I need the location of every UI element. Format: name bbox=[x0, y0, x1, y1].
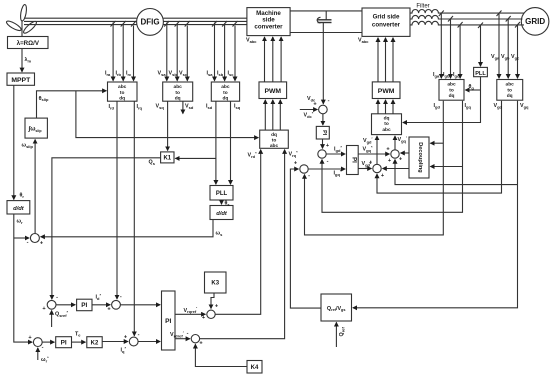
wire: Vdc* reference stub bbox=[300, 109, 318, 111]
block Qref/Vgs bbox=[321, 294, 352, 321]
svg-text:Vgq: Vgq bbox=[520, 103, 529, 109]
svg-text:+: + bbox=[124, 335, 128, 341]
svg-text:PI: PI bbox=[165, 318, 171, 325]
transform block: rotor dq to abc bbox=[260, 130, 289, 148]
svg-text:λm: λm bbox=[25, 57, 32, 63]
transform block: grid current abc to dq bbox=[439, 80, 464, 101]
controller PI (speed loop) bbox=[56, 337, 72, 348]
node: rotor current taps I_ra I_rb I_rc bbox=[111, 21, 137, 27]
svg-text:+: + bbox=[369, 161, 373, 167]
summing junction: V_gd compensation bbox=[373, 164, 381, 172]
svg-text:θr: θr bbox=[20, 193, 25, 199]
svg-text:GRID: GRID bbox=[525, 17, 545, 26]
wire: theta_s PLL to d/dt bbox=[221, 200, 223, 204]
svg-text:to: to bbox=[175, 90, 180, 96]
wire: V_gq* output bbox=[358, 153, 389, 155]
controller PI (Q loop) bbox=[77, 299, 92, 311]
summing junction: reactive power Qs bbox=[47, 300, 56, 309]
svg-text:dq: dq bbox=[507, 93, 513, 99]
svg-text:Igb: Igb bbox=[443, 72, 450, 78]
svg-text:Qref: Qref bbox=[339, 327, 345, 337]
svg-text:Vgd′: Vgd′ bbox=[363, 136, 373, 144]
svg-text:Vga: Vga bbox=[491, 54, 500, 60]
svg-text:Vsb: Vsb bbox=[169, 71, 178, 77]
summing junction: V_gq compensation bbox=[391, 150, 399, 158]
wire: omega_slip into integrator bbox=[34, 140, 36, 234]
svg-text:to: to bbox=[449, 87, 454, 93]
block d/dt (machine) bbox=[210, 206, 233, 220]
svg-text:Vsc: Vsc bbox=[179, 71, 188, 77]
svg-text:Irb: Irb bbox=[116, 71, 122, 77]
svg-text:dq: dq bbox=[271, 132, 277, 138]
summing junction: rotor speed bbox=[33, 338, 42, 347]
transform block: stator voltage abc to dq bbox=[163, 82, 193, 101]
controller PI (grid current) bbox=[347, 146, 359, 175]
svg-text:to: to bbox=[384, 121, 389, 127]
wire: grid d current error to PI bbox=[326, 153, 345, 155]
wire: PI upper output bbox=[175, 313, 205, 315]
wire: Vdc measurement down to summing bbox=[322, 23, 324, 104]
transform block: grid dq to abc bbox=[372, 114, 402, 135]
node: grid current taps I_ga I_gb I_gc bbox=[439, 11, 463, 28]
wire: speed summing to PI bbox=[42, 341, 54, 343]
svg-text:DFIG: DFIG bbox=[140, 18, 159, 27]
summing junction: grid d-axis current bbox=[318, 150, 326, 158]
wire: Q_sref input stub bbox=[51, 311, 53, 327]
svg-text:abc: abc bbox=[447, 82, 456, 88]
wire: K4 to V_rd summing bbox=[195, 344, 247, 366]
wire: omega_r branch to slip summing bbox=[14, 237, 29, 239]
wire: omega_r* input stub bbox=[37, 348, 39, 360]
svg-text:d/dt: d/dt bbox=[216, 211, 228, 217]
svg-text:Vgq*: Vgq* bbox=[363, 144, 374, 152]
integrator block of slip speed bbox=[25, 118, 47, 138]
svg-text:Vsd: Vsd bbox=[185, 104, 194, 110]
svg-text:to: to bbox=[272, 137, 277, 143]
svg-text:Vgd: Vgd bbox=[494, 103, 503, 109]
svg-text:PWM: PWM bbox=[378, 88, 395, 95]
box MPPT bbox=[7, 73, 35, 85]
svg-text:+: + bbox=[381, 173, 385, 179]
box lambda=R-Omega/V bbox=[8, 37, 49, 49]
svg-text:Vgb: Vgb bbox=[501, 54, 510, 60]
wire: Igq feedback via Igd line bbox=[305, 101, 444, 235]
node: stator current taps I_sa I_sb I_sc bbox=[212, 21, 238, 27]
svg-text:to: to bbox=[507, 87, 512, 93]
svg-text:+: + bbox=[202, 315, 206, 321]
svg-text:Decoupling: Decoupling bbox=[417, 142, 423, 173]
wire: PWM to machine converter (3) bbox=[264, 37, 266, 82]
wire: I_rq feedback bbox=[133, 101, 135, 336]
svg-text:-: - bbox=[327, 159, 329, 165]
svg-text:+: + bbox=[199, 341, 203, 347]
wire: I_sd into K1 right input bbox=[175, 157, 216, 159]
svg-text:-: - bbox=[187, 331, 189, 337]
svg-text:Iq*: Iq* bbox=[121, 345, 127, 353]
grid source GRID bbox=[521, 8, 549, 36]
wire: decoupling output to V_gd summing bbox=[383, 168, 409, 170]
wire: theta_slip from integrator to rotor abc-dq and dq-abc bbox=[37, 91, 107, 118]
svg-text:Vrdref′: Vrdref′ bbox=[170, 330, 184, 338]
wire: Vdc error to PI bbox=[322, 114, 324, 125]
generator DFIG bbox=[137, 9, 164, 36]
wire: omega_s to slip summing bbox=[41, 220, 213, 237]
svg-text:Vrd*: Vrd* bbox=[248, 150, 258, 158]
wire: grid q current error to PI bbox=[308, 168, 345, 170]
svg-text:+: + bbox=[313, 102, 317, 108]
svg-text:converter: converter bbox=[254, 23, 283, 30]
summing junction: grid q-axis current bbox=[300, 165, 308, 173]
svg-text:abc: abc bbox=[174, 84, 183, 90]
wire: I_g abc measurement lines bbox=[440, 14, 442, 79]
wire: V_gd prime up to dq-abc bbox=[376, 136, 378, 164]
svg-text:+: + bbox=[42, 306, 46, 312]
wire: Igd feedback via Igq line bbox=[322, 101, 463, 213]
gain K2 bbox=[87, 337, 102, 348]
wire: Igd into decoupling bbox=[430, 142, 443, 144]
svg-text:d/dt: d/dt bbox=[13, 206, 25, 212]
wire: 3-phase filter to GRID bbox=[440, 13, 524, 25]
svg-text:Qs: Qs bbox=[149, 160, 156, 166]
svg-text:Ird: Ird bbox=[109, 104, 115, 110]
summing junction: q-axis rotor current bbox=[129, 337, 138, 346]
node: grid voltage taps V_ga V_gb V_gc bbox=[497, 11, 521, 28]
svg-text:-: - bbox=[308, 173, 310, 179]
summing junction: d-axis rotor current bbox=[112, 300, 121, 309]
wire: I_s abc measurement lines bbox=[214, 23, 216, 81]
svg-text:-: - bbox=[328, 98, 330, 104]
svg-text:ωs: ωs bbox=[216, 231, 224, 237]
gain K4 bbox=[247, 361, 262, 374]
svg-text:-: - bbox=[120, 294, 122, 300]
svg-text:K1: K1 bbox=[163, 156, 171, 162]
wire: Q summing to PI bbox=[56, 304, 75, 306]
wire: I_d* to current summing bbox=[92, 304, 110, 306]
svg-text:Qref/Vgs: Qref/Vgs bbox=[327, 306, 346, 312]
wind turbine rotor bbox=[5, 4, 38, 36]
summing junction: slip speed bbox=[30, 234, 39, 243]
svg-text:ωr*: ωr* bbox=[41, 355, 49, 363]
wire: Q_s from K1 to Q summing bbox=[52, 158, 161, 299]
modulator PWM (machine) bbox=[259, 82, 287, 99]
box PLL (grid) bbox=[474, 67, 488, 76]
wire: T_e to K2 bbox=[72, 341, 86, 343]
wire: V_sq into K1 bbox=[167, 101, 169, 150]
box PLL (machine) bbox=[210, 186, 233, 201]
svg-text:abc: abc bbox=[506, 82, 515, 88]
summing junction: V_rq compensation bbox=[207, 310, 215, 318]
svg-text:Igd: Igd bbox=[434, 103, 441, 109]
wire: grid dq-abc to PWM (3) bbox=[377, 100, 379, 114]
svg-text:Id*: Id* bbox=[96, 292, 102, 300]
wire: V_gq prime up to dq-abc bbox=[394, 136, 396, 150]
summing junction: V_rd compensation bbox=[191, 335, 199, 343]
wire: current error to PI block bbox=[120, 304, 160, 306]
svg-text:ωslip: ωslip bbox=[22, 143, 34, 149]
svg-text:abc: abc bbox=[221, 84, 230, 90]
wire: K3 to V_rq summing bbox=[211, 293, 214, 309]
svg-text:Vsa: Vsa bbox=[158, 71, 167, 77]
svg-text:Isq: Isq bbox=[234, 104, 241, 110]
svg-text:PLL: PLL bbox=[475, 71, 486, 77]
block d/dt (rotor position) bbox=[7, 201, 30, 214]
controller PI (rotor current, tall) bbox=[162, 291, 176, 350]
svg-text:Irq: Irq bbox=[137, 104, 143, 110]
wire: Igd* to current summing bbox=[322, 139, 324, 148]
svg-text:PI: PI bbox=[61, 340, 67, 347]
wire: Qref input stub bbox=[335, 322, 337, 347]
svg-text:+: + bbox=[215, 304, 219, 310]
svg-text:dq: dq bbox=[222, 96, 228, 102]
wire: I_r abc measurement lines bbox=[112, 23, 114, 81]
svg-text:Vgc: Vgc bbox=[511, 54, 520, 60]
svg-text:-: - bbox=[138, 332, 140, 338]
svg-text:to: to bbox=[120, 90, 125, 96]
svg-text:Isa: Isa bbox=[207, 71, 214, 77]
wire: I_sd I_sq into PLL bbox=[215, 101, 217, 184]
svg-text:Irc: Irc bbox=[126, 71, 132, 77]
svg-text:-: - bbox=[27, 240, 29, 246]
svg-text:Vrq*: Vrq* bbox=[289, 149, 299, 157]
wire: PWM to grid converter (3) bbox=[377, 38, 379, 82]
svg-text:θslip: θslip bbox=[39, 96, 49, 102]
svg-text:λ=RΩ/V: λ=RΩ/V bbox=[17, 40, 40, 47]
svg-text:ωr: ωr bbox=[17, 219, 24, 225]
wire: Igq* reference from Qref/Vgs to grid q summing bbox=[290, 169, 321, 308]
svg-text:Vsq: Vsq bbox=[156, 104, 165, 110]
capacitor DC link bbox=[317, 11, 331, 23]
svg-text:+: + bbox=[399, 157, 403, 163]
svg-text:Filter: Filter bbox=[416, 3, 429, 9]
node: stator voltage taps V_sa V_sb V_sc bbox=[164, 21, 190, 27]
inductor filter (3-phase) bbox=[410, 9, 440, 24]
wire: decoupling output to V_gq summing bbox=[401, 152, 409, 154]
svg-text:+: + bbox=[28, 335, 32, 341]
svg-text:Ira: Ira bbox=[105, 71, 111, 77]
svg-text:Vrqref′: Vrqref′ bbox=[184, 306, 198, 314]
wire: I_rd feedback bbox=[116, 101, 118, 299]
svg-text:dq: dq bbox=[449, 93, 455, 99]
svg-text:Igc: Igc bbox=[453, 72, 460, 78]
svg-text:dq: dq bbox=[119, 96, 125, 102]
svg-text:Qsref*: Qsref* bbox=[55, 309, 69, 317]
svg-text:PI: PI bbox=[321, 130, 327, 136]
modulator PWM (grid) bbox=[372, 82, 400, 99]
transform block: grid voltage abc to dq bbox=[497, 80, 523, 101]
svg-text:+: + bbox=[40, 241, 44, 247]
gain K1 bbox=[161, 152, 174, 163]
svg-text:dq: dq bbox=[384, 116, 390, 122]
wire: 3-phase DFIG to machine side converter bbox=[164, 18, 248, 24]
svg-text:Vabc: Vabc bbox=[358, 38, 369, 44]
wire: PLL input bbox=[480, 25, 482, 66]
svg-text:Grid side: Grid side bbox=[373, 14, 400, 21]
wire: omega_r down and to speed summing bbox=[14, 214, 32, 342]
svg-text:Isd: Isd bbox=[206, 104, 213, 110]
svg-text:+: + bbox=[294, 161, 298, 167]
svg-text:∫ωslip: ∫ωslip bbox=[28, 126, 43, 133]
wire: V_gd feedforward to summing B bbox=[377, 101, 502, 193]
svg-text:+: + bbox=[388, 158, 392, 164]
transform block: stator current abc to dq bbox=[211, 82, 239, 101]
svg-text:Igq*: Igq* bbox=[334, 168, 342, 176]
svg-text:K2: K2 bbox=[91, 340, 99, 346]
wire: current error to PI block lower bbox=[138, 341, 160, 343]
wire: V_rq* up to dq-abc bbox=[215, 150, 261, 315]
svg-text:+: + bbox=[386, 147, 390, 153]
wire: V_gd* output bbox=[358, 168, 371, 170]
svg-text:Te: Te bbox=[75, 331, 81, 337]
wire: 3-phase shaft turbine to DFIG bbox=[24, 18, 137, 24]
wire: Igq into decoupling bbox=[430, 166, 462, 168]
svg-text:Igq: Igq bbox=[465, 103, 472, 109]
svg-text:Igd*: Igd* bbox=[334, 144, 342, 152]
svg-text:dq: dq bbox=[175, 96, 181, 102]
wire: V_rd* up to dq-abc bbox=[200, 150, 285, 339]
block Decoupling bbox=[409, 137, 429, 178]
svg-text:θg: θg bbox=[469, 84, 475, 90]
svg-text:converter: converter bbox=[372, 21, 401, 28]
svg-text:to: to bbox=[223, 90, 228, 96]
transform block: rotor current abc to dq bbox=[108, 82, 138, 101]
svg-text:Vgq′: Vgq′ bbox=[398, 135, 408, 143]
svg-text:abc: abc bbox=[118, 84, 127, 90]
wire: K2 to q-axis current summing bbox=[102, 341, 128, 343]
svg-text:Isc: Isc bbox=[228, 71, 235, 77]
svg-text:abc: abc bbox=[382, 127, 391, 133]
svg-text:-: - bbox=[56, 295, 58, 301]
converter U1: machine side converter bbox=[247, 8, 290, 36]
wire: dq-abc to PWM (3) bbox=[264, 100, 266, 130]
svg-text:Iga: Iga bbox=[433, 72, 440, 78]
svg-text:PWM: PWM bbox=[264, 88, 281, 95]
wire: DC bus top bbox=[290, 10, 362, 12]
summing junction: Vdc bbox=[319, 105, 328, 114]
svg-text:-: - bbox=[42, 345, 44, 351]
svg-text:Vdc*: Vdc* bbox=[304, 110, 314, 118]
wire: PI lower output bbox=[175, 338, 190, 340]
svg-text:K3: K3 bbox=[211, 281, 219, 287]
gain K3 bbox=[205, 272, 227, 293]
wire: V_s abc measurement lines bbox=[166, 23, 168, 81]
svg-text:K4: K4 bbox=[251, 365, 259, 371]
controller PI (dc link) bbox=[316, 126, 329, 139]
svg-text:PLL: PLL bbox=[216, 191, 228, 197]
wire: MPPT output theta_r down to d/dt bbox=[13, 85, 15, 199]
wire: V_g abc measurement lines bbox=[498, 14, 500, 79]
converter U2: grid side converter bbox=[362, 8, 410, 36]
wire: DC bus bottom bbox=[290, 32, 362, 34]
svg-text:abc: abc bbox=[270, 143, 279, 149]
svg-text:θs: θs bbox=[225, 201, 231, 207]
wire: theta_g from PLL to abc-dq and dq-abc bbox=[403, 77, 481, 123]
svg-text:Isb: Isb bbox=[217, 71, 224, 77]
svg-text:MPPT: MPPT bbox=[11, 77, 31, 84]
svg-text:+: + bbox=[107, 307, 111, 313]
svg-text:PI: PI bbox=[350, 157, 356, 163]
svg-text:Vabc: Vabc bbox=[246, 38, 257, 44]
wire: lambda_m arrow to MPPT bbox=[21, 49, 23, 72]
wire: V_gq feedforward to summing A and Q box bbox=[353, 101, 518, 308]
wire: V_sd short output bbox=[182, 101, 184, 113]
svg-text:+: + bbox=[326, 143, 330, 149]
node: PLL tap bbox=[478, 23, 483, 29]
svg-text:PI: PI bbox=[81, 302, 87, 309]
